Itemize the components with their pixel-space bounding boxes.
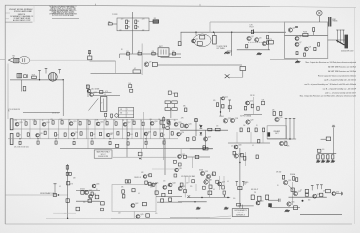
left marks bbox=[101, 208, 104, 211]
loop top box pair bbox=[125, 180, 130, 183]
tone box a bbox=[165, 101, 170, 104]
band end box bbox=[115, 144, 118, 147]
transistor Q15 bbox=[69, 121, 76, 125]
resistor R36 bbox=[257, 107, 259, 111]
resistor R80 bbox=[248, 128, 250, 132]
svg-text:12K: 12K bbox=[287, 146, 289, 148]
resistor R62 bbox=[171, 132, 173, 135]
svg-text:R6: R6 bbox=[127, 51, 129, 53]
junction J24 bbox=[155, 183, 156, 184]
transistor Q23 bbox=[144, 132, 151, 136]
svg-text:220: 220 bbox=[83, 202, 85, 204]
svg-text:use B + of pound humidity use: use B + of pound humidity use * 80 below… bbox=[304, 83, 356, 86]
svg-text:Q50: Q50 bbox=[260, 201, 263, 203]
resistor R32 bbox=[216, 103, 218, 107]
wire pre y114 bbox=[244, 114, 262, 116]
transistor Q41 bbox=[151, 183, 158, 187]
tall drop x231 bbox=[231, 32, 233, 56]
resistor R47 bbox=[160, 121, 162, 124]
title block text row 2 bbox=[14, 10, 32, 13]
wire band vert bbox=[131, 119, 133, 139]
resistor R48 bbox=[168, 122, 170, 125]
junction J6 bbox=[63, 79, 64, 80]
transistor Q18 bbox=[150, 121, 157, 125]
wire band vert bbox=[68, 119, 70, 139]
label mid a bbox=[181, 118, 184, 120]
ground GND6 bbox=[316, 160, 320, 163]
junction J16 bbox=[91, 138, 92, 139]
junction J23 bbox=[67, 218, 68, 219]
transistor Q46 bbox=[92, 184, 99, 188]
resistor R57 bbox=[117, 132, 119, 135]
svg-text:Q31: Q31 bbox=[239, 154, 242, 156]
svg-text:.02: .02 bbox=[252, 145, 254, 147]
transistor Q49 bbox=[218, 182, 225, 186]
svg-text:Q18: Q18 bbox=[154, 121, 157, 123]
junction J13 bbox=[37, 138, 38, 139]
wire y206 bbox=[238, 205, 254, 207]
label top a bbox=[183, 106, 186, 108]
main rail x67 bbox=[67, 164, 69, 218]
band label bbox=[15, 120, 17, 122]
svg-text:Q11: Q11 bbox=[225, 96, 228, 98]
resistor R68 bbox=[109, 141, 111, 144]
label midchain bbox=[141, 172, 143, 174]
svg-text:Q52: Q52 bbox=[298, 191, 301, 193]
resistor R15 bbox=[314, 47, 316, 50]
svg-text:100: 100 bbox=[322, 149, 324, 151]
wire band vert bbox=[113, 119, 115, 139]
mid chain box a bbox=[174, 160, 177, 163]
band label bbox=[105, 120, 107, 122]
pre box 261 bbox=[261, 100, 264, 105]
band label bbox=[167, 120, 169, 122]
stage box y92 bbox=[100, 91, 103, 94]
resistor R59 bbox=[136, 133, 138, 136]
title block text row 1 bbox=[9, 9, 29, 11]
resistor R75 bbox=[181, 124, 183, 127]
svg-text:120K: 120K bbox=[109, 134, 112, 136]
capacitor C1 bbox=[295, 27, 298, 28]
pot wiper diag bbox=[89, 99, 99, 111]
tone box b bbox=[172, 101, 177, 104]
wire drop 2 bbox=[21, 80, 23, 92]
transistor Q44 bbox=[168, 183, 175, 187]
resistor R89 bbox=[280, 112, 282, 116]
svg-text:10% 1K .02: 10% 1K .02 bbox=[52, 113, 59, 115]
transistor Q14 bbox=[42, 122, 49, 126]
svg-text:R5: R5 bbox=[108, 21, 110, 23]
loop tr corner bbox=[145, 181, 151, 185]
svg-text:Q28: Q28 bbox=[235, 118, 238, 120]
title block frame bbox=[5, 5, 34, 22]
wire rol y196 bbox=[156, 196, 182, 198]
svg-text:Q16: Q16 bbox=[100, 122, 103, 124]
wire band vert bbox=[159, 119, 161, 139]
svg-text:220: 220 bbox=[142, 18, 145, 20]
label preamp a bbox=[272, 110, 275, 112]
rol box a bbox=[155, 191, 158, 194]
resistor R85 bbox=[241, 153, 243, 157]
wire drop at 129 bbox=[129, 56, 131, 60]
br box r2 bbox=[320, 193, 323, 196]
resistor R73 bbox=[208, 128, 212, 131]
svg-text:Q17: Q17 bbox=[127, 122, 130, 124]
below box bbox=[146, 214, 150, 217]
lb box 3 bbox=[95, 195, 99, 199]
title block text row 4 bbox=[10, 15, 34, 18]
wire band vert bbox=[77, 119, 79, 139]
svg-text:Q6: Q6 bbox=[299, 36, 301, 38]
transistor Q11 bbox=[221, 96, 228, 100]
wire relay row bbox=[120, 53, 159, 55]
svg-text:Q12: Q12 bbox=[250, 101, 253, 103]
wire input run bbox=[30, 59, 90, 61]
line transformer T2 bbox=[48, 72, 57, 81]
band label2 bbox=[109, 134, 112, 136]
wire pre x229 bbox=[228, 100, 231, 112]
labels br top a bbox=[276, 172, 281, 174]
svg-text:cap B + of good humidity volt: cap B + of good humidity volt - 20 mfd 1… bbox=[324, 79, 356, 82]
transistor Q40 bbox=[143, 174, 150, 178]
loop box d bbox=[142, 202, 146, 205]
svg-text:Q8: Q8 bbox=[309, 47, 311, 49]
svg-text:12K: 12K bbox=[93, 134, 95, 136]
wire mid upper bbox=[90, 60, 116, 62]
svg-text:Q54: Q54 bbox=[336, 191, 339, 193]
wire bus br y207 bbox=[270, 207, 300, 209]
svg-text:Q2: Q2 bbox=[251, 36, 253, 38]
cap stub pa bbox=[285, 119, 288, 140]
svg-text:Q55: Q55 bbox=[291, 202, 294, 204]
bm vline 219 bbox=[219, 176, 221, 190]
tone wires bbox=[168, 104, 175, 118]
notes text block right bbox=[300, 61, 357, 97]
svg-text:33K: 33K bbox=[183, 106, 186, 108]
junction J21 bbox=[239, 162, 240, 163]
connector P1 bbox=[153, 18, 159, 23]
band label bbox=[87, 119, 89, 121]
resistor R91 bbox=[317, 155, 319, 159]
svg-text:Resist Capacitor Values are pr: Resist Capacitor Values are protected to… bbox=[318, 74, 356, 77]
svg-text:2N408: 2N408 bbox=[95, 89, 99, 91]
connector hatch bbox=[14, 58, 19, 63]
wire long gray bbox=[5, 194, 67, 196]
resistor R20 bbox=[23, 87, 26, 91]
cap stub pc bbox=[293, 119, 296, 140]
cap stub left bbox=[54, 184, 57, 195]
resistor R77 bbox=[193, 137, 195, 141]
br vline 292 bbox=[291, 182, 293, 205]
wire band bus bottom bbox=[60, 148, 213, 150]
resistor R67 bbox=[91, 141, 93, 144]
resistor R52 bbox=[54, 133, 56, 136]
band label bbox=[60, 119, 63, 121]
wire mid drop bbox=[115, 61, 117, 73]
svg-text:Q25: Q25 bbox=[189, 124, 192, 126]
wire cap x333 bbox=[332, 125, 335, 154]
squiggle wire bbox=[53, 213, 76, 215]
svg-text:1K: 1K bbox=[123, 120, 125, 122]
wire stage y95 bbox=[93, 95, 120, 97]
label ac input bbox=[13, 56, 16, 58]
wire mid out upper bbox=[161, 57, 182, 59]
resistor R63 bbox=[19, 141, 21, 144]
band label bbox=[24, 120, 26, 122]
wire band vert bbox=[29, 119, 31, 139]
resistor R56 bbox=[99, 132, 101, 135]
input box left bbox=[178, 42, 181, 46]
filter capacitor can C20 bbox=[345, 35, 349, 49]
wire x to switch bbox=[230, 76, 243, 78]
band label bbox=[42, 120, 44, 122]
bridge label bottom left bbox=[119, 30, 122, 32]
transistor Q53 bbox=[313, 194, 320, 198]
svg-text:R2: R2 bbox=[137, 21, 139, 23]
resistor R72 bbox=[195, 119, 198, 122]
resistor R2 bbox=[135, 20, 140, 24]
svg-text:Q5: Q5 bbox=[293, 28, 295, 30]
transistor Q31 bbox=[234, 154, 242, 159]
br box low bbox=[294, 206, 298, 210]
svg-text:Q49: Q49 bbox=[222, 182, 225, 184]
band label2 bbox=[130, 134, 133, 136]
transistor Q13 bbox=[15, 122, 22, 126]
transistor Q8 bbox=[304, 47, 311, 51]
wire bus lower bbox=[237, 49, 270, 51]
svg-text:117V: 117V bbox=[269, 39, 272, 41]
band label bbox=[150, 119, 152, 121]
resistor R64 bbox=[37, 141, 39, 144]
band label bbox=[114, 120, 116, 122]
wire band vert bbox=[48, 119, 50, 139]
svg-text:and C + of several weekly vol: and C + of several weekly volt 20 mfd 7 bbox=[325, 92, 356, 95]
wire r1 left bbox=[321, 138, 327, 140]
bm extra e bbox=[189, 176, 224, 191]
wire bus y130 bbox=[180, 129, 228, 131]
wire down x192 bbox=[191, 157, 193, 168]
svg-text:SCHEM: SCHEM bbox=[27, 9, 33, 11]
labels loop top bbox=[134, 177, 141, 179]
sub box b bbox=[195, 155, 199, 158]
wire y157 bbox=[187, 156, 211, 158]
label relay row bbox=[121, 49, 123, 51]
svg-text:220: 220 bbox=[231, 146, 233, 148]
resistor R13 bbox=[267, 41, 269, 44]
bm lbl a bbox=[190, 186, 192, 188]
transistor Q43 bbox=[163, 185, 170, 189]
tall resistor left a bbox=[10, 119, 13, 130]
svg-text:680: 680 bbox=[308, 200, 310, 202]
switch table bbox=[119, 108, 134, 118]
br box right bbox=[326, 189, 331, 192]
junction J25 bbox=[194, 201, 195, 202]
dark comp bbox=[268, 132, 271, 136]
svg-text:.05: .05 bbox=[138, 193, 140, 195]
svg-text:470: 470 bbox=[213, 100, 216, 102]
resistor R78 bbox=[203, 146, 205, 149]
wire pre x220 bbox=[220, 97, 222, 116]
svg-text:R4: R4 bbox=[137, 26, 139, 28]
svg-text:.05: .05 bbox=[78, 120, 80, 122]
br entry cap bbox=[279, 199, 281, 202]
net rail vertical bbox=[180, 32, 182, 45]
wire drop far left bbox=[7, 64, 9, 120]
resistor R96 bbox=[91, 192, 93, 196]
band label2 bbox=[19, 135, 21, 137]
svg-text:R3: R3 bbox=[128, 26, 130, 28]
pre box 229 bbox=[228, 106, 231, 109]
svg-text:Q10: Q10 bbox=[91, 89, 94, 91]
input chain box bbox=[88, 50, 92, 60]
comp box r2 bbox=[317, 149, 321, 152]
label top b bbox=[213, 100, 216, 102]
sub box a bbox=[183, 155, 186, 158]
svg-text:.02: .02 bbox=[114, 120, 116, 122]
svg-text:.05: .05 bbox=[213, 189, 215, 191]
band label bbox=[51, 119, 53, 121]
transistor Q48 bbox=[204, 179, 212, 184]
svg-text:50MFD: 50MFD bbox=[244, 182, 249, 184]
transistor Q17 bbox=[123, 122, 130, 126]
transistor Q12 bbox=[246, 101, 253, 105]
bm vline 239 bbox=[239, 176, 241, 208]
grid resistor bbox=[200, 35, 205, 39]
bm vline 185 bbox=[184, 176, 186, 198]
svg-text:Q48: Q48 bbox=[208, 179, 211, 181]
svg-text:1K: 1K bbox=[96, 189, 98, 191]
svg-text:40/40/20 MFD 450V: 40/40/20 MFD 450V bbox=[341, 50, 354, 52]
svg-text:2N301: 2N301 bbox=[219, 116, 224, 118]
transistor Q42 bbox=[131, 203, 138, 207]
bridge center wire bbox=[132, 18, 134, 31]
wire y169 bbox=[152, 168, 177, 170]
bm lbl b bbox=[213, 189, 215, 191]
resistor R43 bbox=[106, 122, 108, 125]
page mark tick bbox=[96, 4, 201, 7]
transistor Q4 bbox=[262, 41, 269, 45]
band top labels far bbox=[8, 109, 20, 113]
svg-text:Q9: Q9 bbox=[149, 62, 151, 64]
svg-text:IN: IN bbox=[8, 111, 9, 113]
br capstub a bbox=[311, 186, 314, 191]
band label bbox=[33, 119, 36, 121]
svg-text:TO SPKR TERM: TO SPKR TERM bbox=[216, 46, 228, 48]
svg-text:MIC: MIC bbox=[13, 56, 16, 58]
wire mid to switch bbox=[157, 64, 242, 66]
junction J15 bbox=[73, 138, 74, 139]
svg-text:25V: 25V bbox=[244, 184, 247, 186]
wire bus right y153 bbox=[317, 153, 336, 155]
transistor Q47 bbox=[178, 186, 185, 190]
resistor R18 bbox=[304, 53, 306, 56]
svg-text:.05: .05 bbox=[42, 120, 44, 122]
wire bus y143 bbox=[228, 142, 270, 144]
svg-text:470: 470 bbox=[163, 181, 165, 183]
svg-text:RECT: RECT bbox=[159, 46, 163, 48]
resistor R95 bbox=[66, 166, 68, 170]
wire rol y202 bbox=[157, 201, 182, 203]
resistor R5 bbox=[108, 21, 112, 25]
title block text right 1 bbox=[27, 9, 33, 11]
resistor R66 bbox=[73, 141, 75, 144]
svg-text:15K: 15K bbox=[205, 179, 207, 181]
resistor R35 bbox=[251, 104, 253, 108]
svg-text:Q13: Q13 bbox=[19, 122, 22, 124]
wire to ground G1 bbox=[227, 50, 232, 52]
resistor R19 bbox=[32, 75, 37, 79]
resistor R38 bbox=[34, 121, 36, 124]
wire vert x88band bbox=[87, 119, 89, 149]
resistor R90 bbox=[285, 142, 287, 146]
junction J20 bbox=[163, 138, 164, 139]
transistor Q3 bbox=[255, 37, 262, 42]
notes paragraph top center bbox=[49, 5, 77, 17]
resistor R34 bbox=[244, 106, 246, 110]
can wedge bbox=[336, 40, 344, 45]
svg-text:use B + of pound humidity use: use B + of pound humidity use - 45 mfd 4… bbox=[323, 87, 357, 90]
bridge outline bbox=[117, 18, 149, 31]
transistor Q50 bbox=[256, 201, 263, 205]
shield enclosure bbox=[285, 22, 328, 59]
band label bbox=[141, 121, 143, 123]
svg-text:220: 220 bbox=[51, 119, 53, 121]
wire vdrop 263 bbox=[262, 132, 264, 143]
transistor Q1 bbox=[192, 39, 198, 43]
wire bus br y214 bbox=[300, 214, 342, 216]
svg-text:Q33: Q33 bbox=[205, 171, 208, 173]
svg-text:220: 220 bbox=[121, 18, 124, 20]
junction J18 bbox=[127, 138, 128, 139]
diode D2 bbox=[200, 132, 203, 135]
bm extra c bbox=[216, 180, 219, 183]
svg-text:Q39: Q39 bbox=[179, 168, 182, 170]
resistor R55 bbox=[91, 133, 93, 136]
svg-text:6.8K: 6.8K bbox=[73, 178, 76, 180]
wire enclosure bus bbox=[285, 34, 328, 36]
band label2 bbox=[180, 133, 182, 135]
wire y157 long bbox=[113, 156, 177, 158]
svg-text:Q46: Q46 bbox=[96, 184, 99, 186]
bm left box b bbox=[184, 190, 187, 193]
wire lamp lead bbox=[318, 16, 320, 22]
band label bbox=[78, 120, 80, 122]
resistor R12 bbox=[267, 36, 269, 39]
wire down x245 bbox=[245, 152, 247, 166]
svg-text:~~: ~~ bbox=[64, 214, 66, 216]
svg-text:.05: .05 bbox=[69, 119, 71, 121]
resistor R49 bbox=[17, 133, 19, 136]
tone box c bbox=[165, 108, 170, 111]
svg-text:Q3: Q3 bbox=[259, 37, 261, 39]
svg-text:6.8K: 6.8K bbox=[96, 120, 99, 122]
wire enclosure entry bbox=[268, 31, 285, 33]
title block text row 6 bbox=[13, 19, 31, 22]
band label2 bbox=[147, 133, 149, 135]
ground GND7 bbox=[321, 160, 325, 163]
preamp box bbox=[267, 126, 286, 139]
svg-text:1K: 1K bbox=[147, 133, 149, 135]
bmr box a bbox=[251, 195, 254, 200]
bm center box a bbox=[209, 185, 212, 189]
band labels low bbox=[14, 147, 29, 149]
br box pair bbox=[305, 189, 308, 196]
svg-text:10K: 10K bbox=[24, 120, 26, 122]
x mark bbox=[225, 74, 230, 78]
label from preamp bbox=[40, 192, 54, 195]
resistor R84 bbox=[233, 151, 235, 155]
resistor R54 bbox=[80, 132, 82, 135]
